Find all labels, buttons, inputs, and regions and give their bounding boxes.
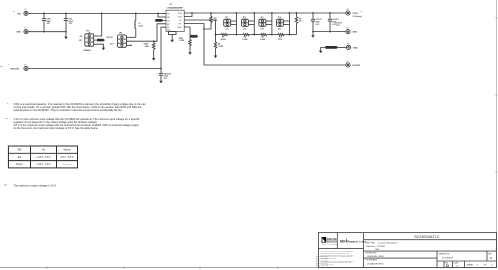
jumper JP2 [241,13,254,35]
resistor R2 ladder inline [242,34,249,41]
svg-text:LTC3526EDD#PBF: LTC3526EDD#PBF [167,7,184,9]
svg-text:ANALOG: ANALOG [327,238,337,241]
svg-text:optional parts on the DC2626A.: optional parts on the DC2626A. They're i… [13,108,122,112]
net flag GND_SNS [325,46,346,49]
junction VIN rail at pin2 riser [157,13,159,15]
wire JP6 pin1 to L1 [126,36,135,38]
node JP6 pin3 end [130,45,132,47]
svg-text:BST: BST [167,24,170,26]
wire ladder seg5 [284,34,296,36]
svg-text:1.02M: 1.02M [218,46,223,48]
wire JP5 pin2 stub [94,39,97,41]
resistor R3 ladder inline [260,34,267,41]
wire JP5 pin3 to ground [94,44,104,47]
svg-text:ENBL: ENBL [98,40,102,42]
inductor L1 [135,13,144,37]
svg-text:Customer Evaluation 2: Customer Evaluation 2 [378,242,398,245]
SCALE cell [454,261,460,267]
svg-text:E6: E6 [347,43,349,45]
op-amp U1 LTC3526EDD IC body [166,4,184,31]
jumper JP1 [224,13,237,35]
svg-text:DRAWING NO.: DRAWING NO. [439,252,451,255]
junction VIN rail at L1 drop [135,13,137,15]
svg-text:VOUT: VOUT [178,13,182,15]
junction ladder at JP1 [236,34,238,36]
wire VBOOST from terminal [28,68,161,70]
junction VOUT rail at JP2 [253,12,255,14]
junction VOUT rail at RP1 [210,12,212,14]
svg-text:FB: FB [180,20,182,22]
svg-text:Boost: Boost [16,163,22,166]
jumper JP6 BOOST/EXT [107,33,127,48]
revision mini table [316,257,327,268]
svg-text:VIN_S: VIN_S [156,20,160,22]
border zone ticks right [495,18,498,249]
table text [16,149,73,167]
junction ladder at JP2 [253,34,255,36]
wire VIN top rail [28,12,166,14]
svg-text:on the boost pin, the maximum: on the boost pin, the maximum input volt… [13,126,98,130]
junction GND rail at CIN [65,31,67,33]
ground below CBOOST [159,81,163,84]
svg-text:*: * [7,102,8,106]
svg-text:4.22M: 4.22M [221,38,226,41]
SHEET cell [467,265,494,267]
resistor R1 ladder inline [221,34,228,41]
jumper JP3 [259,13,272,35]
note * text block [7,102,146,112]
svg-text:EN: EN [167,27,169,29]
svg-text:DESIGN VIEW: DESIGN VIEW [366,253,377,255]
svg-text:HW TYPE:: HW TYPE: [366,243,376,245]
DRAWING NO cell [439,252,454,259]
note *** text [4,184,57,188]
DESIGN VIEW cell [366,253,385,259]
wire GND_SNS to ground [321,47,326,50]
svg-text:JP2: JP2 [243,17,246,19]
junction GND rail at CIN1 [43,31,45,33]
wire JP6 pin2 to IC pin [126,24,163,41]
svg-text:2.05M: 2.05M [242,39,247,41]
wire JP6 pin3 stub [126,44,130,46]
terminal E5 GND [313,27,358,33]
HW TYPE cell text [366,242,398,251]
svg-text:E4: E4 [347,9,349,11]
wire GND input rail [28,31,66,33]
svg-text:VOUT: VOUT [178,17,182,19]
wire U1 pin5 to VBOOST net [161,27,164,68]
resistor R0D [178,36,191,52]
svg-text:DEVICES: DEVICES [327,242,338,244]
junction VOUT rail at COUT1 [312,12,314,14]
resistor R5 FB upper [295,13,302,35]
svg-text:02_038529: 02_038529 [442,257,454,259]
svg-text:1.02M: 1.02M [260,39,265,41]
wire U1 pin2 riser to VIN rail [158,13,164,17]
wire ladder seg2 [227,34,243,36]
svg-text:1.14 V - 3.0 V: 1.14 V - 3.0 V [36,164,51,166]
svg-text:ITS ENGINEER: ITS ENGINEER [366,260,378,262]
capacitor CBOOST [159,69,172,81]
svg-text:499k: 499k [145,45,149,48]
ground below R0W [152,58,156,61]
resistor R0W [143,41,155,58]
svg-text:ENABLE: ENABLE [84,49,92,52]
junction R0W on JP6 pin2 net [153,40,155,42]
svg-text:GND: GND [352,32,357,34]
wire JP5 pin1 to VIN rail [94,13,102,36]
logo ADI Power by Linear [340,239,367,244]
table JP6 voltages [8,146,77,168]
terminal E1 VIN [13,9,28,15]
resistor RP1 [204,13,218,29]
title block frame [319,233,497,268]
svg-text:JP5: JP5 [86,30,89,32]
sheet bottom border [0,267,497,269]
capacitor CIN [64,13,74,31]
svg-text:BDESIGN_VIEW: BDESIGN_VIEW [367,256,384,258]
ground below COUT1 [311,35,315,38]
wire U1 PG pin to PGOOD run [187,24,346,66]
U1 pin stubs right [184,13,187,27]
ground below R0D [188,52,192,55]
junction COUT1 at E5 wire [312,31,314,33]
svg-text:***: *** [360,11,362,13]
svg-text:SCHEMATIC: SCHEMATIC [414,234,440,239]
net flag ENABLE [97,39,105,42]
svg-text:JP6: JP6 [119,33,122,35]
wire VOUT rail [187,12,346,14]
svg-text:VOUT: VOUT [352,13,359,15]
REV cell [488,253,492,259]
ground below CIN [64,32,68,40]
U1 exposed pad [169,32,177,40]
ITS ENGINEER cell [366,260,384,266]
junction ladder at JP4 [289,34,291,36]
svg-text:4.5 V - 5.5 V: 4.5 V - 5.5 V [61,157,74,159]
left sheet edge tick [0,66,3,68]
terminal E4 VOUT [346,9,362,18]
note ** text block [6,117,141,130]
resistor R4 ladder inline [278,34,284,41]
svg-text:JP3: JP3 [260,17,263,19]
junction VIN rail at CIN1 [43,13,45,15]
svg-text:Ext: Ext [18,156,22,159]
border zone ticks bottom [47,266,278,269]
junction VBOOST at CBOOST [160,68,162,70]
jumper JP5 ENABLE [79,30,94,51]
wire ladder seg3 [249,34,261,36]
logo Analog Devices [322,237,338,246]
wire FB ladder rail [216,34,222,36]
title block disclaimer fine print [321,250,354,266]
svg-text:SHEET: SHEET [467,265,475,267]
svg-text:VIN: VIN [17,13,21,15]
svg-text:511k: 511k [278,39,282,41]
terminal E7 PGOOD [346,61,361,67]
net flag VIN_SNS on U1 pin3 [155,19,163,22]
svg-text:E1: E1 [25,9,27,11]
svg-text:GND: GND [16,32,21,34]
junction VOUT rail at R5 [296,12,298,14]
capacitor COUT2 [328,13,339,32]
ground below R6 [214,56,218,59]
svg-text:————: ———— [62,164,72,166]
svg-text:D: D [446,263,449,268]
ground below JP5 [102,48,106,51]
svg-text:GN_SNS: GN_SNS [326,47,333,49]
svg-text:Vboost: Vboost [63,149,71,152]
capacitor COUT1 [311,13,322,35]
label COUT3 optional [335,23,342,27]
junction FB ladder left [215,34,217,36]
svg-text:E3: E3 [25,64,27,66]
svg-text:10µH: 10µH [138,25,143,27]
junction VOUT rail at JP1 [236,12,238,14]
svg-text:1.02M: 1.02M [179,40,184,42]
junction VOUT rail pin riser [191,12,193,14]
SIZE cell [445,262,449,268]
svg-text:PGOOD: PGOOD [352,65,360,67]
junction VOUT rail at JP3 [271,12,273,14]
junction VIN rail at CIN [65,13,67,15]
svg-text:VIN: VIN [167,17,170,19]
svg-text:ENBL: ENBL [191,36,195,38]
svg-text:JP6: JP6 [17,150,22,152]
svg-text:1.5 A (max): 1.5 A (max) [352,15,362,18]
jumper JP4 [276,13,289,35]
svg-text:The maximum output voltage is: The maximum output voltage is 3.6 V. [13,184,57,188]
junction VOUT rail at COUT2 [329,12,331,14]
ground below U1 pad [170,40,174,43]
wire U1 FB pin to ladder [187,20,216,35]
wire ladder seg4 [267,34,279,36]
junction COUT2 at E5 wire [329,31,331,33]
svg-text:E7: E7 [347,61,349,63]
svg-text:E2: E2 [25,28,27,30]
U1 pin stubs left [164,13,167,27]
junction PG at RP1 [203,28,205,30]
net flag ENABLE2 on U1 pin10 [187,27,199,38]
svg-text:GND: GND [353,47,358,49]
svg-text:1.14 V - 5.5 V: 1.14 V - 5.5 V [36,157,51,159]
svg-text:PGFB: PGFB [178,27,182,29]
svg-text:A: A [490,256,492,260]
svg-text:VBOOST: VBOOST [10,68,20,70]
svg-text:A. RADZEVSKYI: A. RADZEVSKYI [367,262,384,265]
svg-text:E5: E5 [347,27,349,29]
wire U1 pin7 riser to VOUT rail [187,13,192,17]
capacitor CIN1 [42,13,55,31]
svg-text:BOOST: BOOST [107,37,114,39]
junction VIN rail at JP5 drop [101,13,103,15]
sheet right border [495,0,497,268]
terminal E3 VBOOST [8,64,28,70]
svg-text:JP4: JP4 [278,16,281,19]
svg-text:***: *** [4,184,7,188]
svg-text:100k: 100k [214,20,218,22]
svg-text:**: ** [6,117,8,121]
junction ladder at JP3 [271,34,273,36]
junction VOUT rail at JP4 [289,12,291,14]
svg-text:JP1: JP1 [225,17,228,19]
svg-text:Production : LTC3526: Production : LTC3526 [366,245,385,248]
terminal E6 GND sense [346,43,358,49]
terminal E2 GND [16,28,28,34]
resistor R6 FB lower [214,35,223,56]
ground on GND_SNS net [319,51,323,54]
svg-text:ADI: ADI [340,239,346,243]
